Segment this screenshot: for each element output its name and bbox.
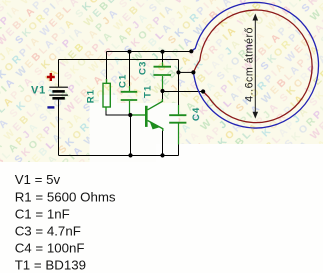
wire emitter down (162, 131, 164, 156)
junction C1 top rail (128, 50, 132, 54)
wire R1 bottom L to base node (106, 110, 131, 115)
wire R1 top lead vertical (106, 52, 108, 80)
capacitor C4 (169, 105, 186, 145)
white bottom area (0, 162, 323, 273)
white knockout patch circuit (90, 103, 179, 162)
battery plus sign (47, 73, 55, 81)
junction coil end node A (189, 49, 193, 53)
svg-text:R1: R1 (86, 89, 97, 103)
wire C4 bottom lead black (178, 144, 180, 156)
coil diameter arrow (253, 14, 259, 119)
junction collector node (160, 89, 164, 93)
svg-text:C3 = 4.7nF: C3 = 4.7nF (15, 224, 81, 239)
capacitor C3 (154, 62, 172, 91)
svg-text:V1: V1 (31, 85, 46, 97)
battery minus sign (47, 106, 54, 108)
svg-text:T1 = BD139: T1 = BD139 (15, 258, 86, 273)
battery V1 (49, 87, 68, 98)
wire C4 top / coil tap vertical (178, 60, 180, 106)
wire battery top lead (58, 60, 60, 87)
wire C3 top lead black (162, 52, 164, 63)
junction coil tap node (191, 70, 195, 74)
svg-text:R1 = 5600 Ohms: R1 = 5600 Ohms (15, 189, 116, 204)
svg-text:C4 = 100nF: C4 = 100nF (15, 241, 85, 256)
wire base node down (130, 115, 132, 156)
wire C1 top lead black (129, 52, 131, 87)
svg-text:C1 = 1nF: C1 = 1nF (15, 206, 70, 221)
junction bottom rail base branch (128, 153, 132, 157)
junction coil lower end (201, 89, 205, 93)
junction bottom rail emitter (160, 153, 164, 157)
resistor R1 (103, 79, 110, 111)
wire bottom rail (59, 155, 179, 157)
svg-text:T1: T1 (143, 85, 154, 98)
svg-text:C3: C3 (137, 61, 148, 75)
wire collector up stub (162, 91, 164, 100)
transistor T1 (131, 99, 163, 131)
junction C4 top tap (176, 70, 180, 74)
svg-text:4..6cm átmérő: 4..6cm átmérő (244, 27, 256, 102)
wire battery plus rail (59, 59, 179, 61)
wire battery bottom lead (58, 100, 60, 156)
coil outer turn (blue) (191, 2, 318, 128)
junction C3 top rail (161, 50, 165, 54)
svg-text:C1: C1 (118, 74, 129, 88)
component values text (15, 172, 116, 273)
svg-text:V1 = 5v: V1 = 5v (15, 172, 61, 187)
transistor T1 emitter arrow (150, 121, 160, 129)
wire top rail node A (107, 51, 192, 53)
capacitor C1 (121, 86, 138, 115)
junction base node (128, 113, 132, 117)
wire collector rail (163, 91, 204, 93)
coil inner turn (dark red) (193, 10, 312, 123)
wire coil tap stub (179, 71, 194, 73)
svg-text:C4: C4 (191, 107, 202, 121)
